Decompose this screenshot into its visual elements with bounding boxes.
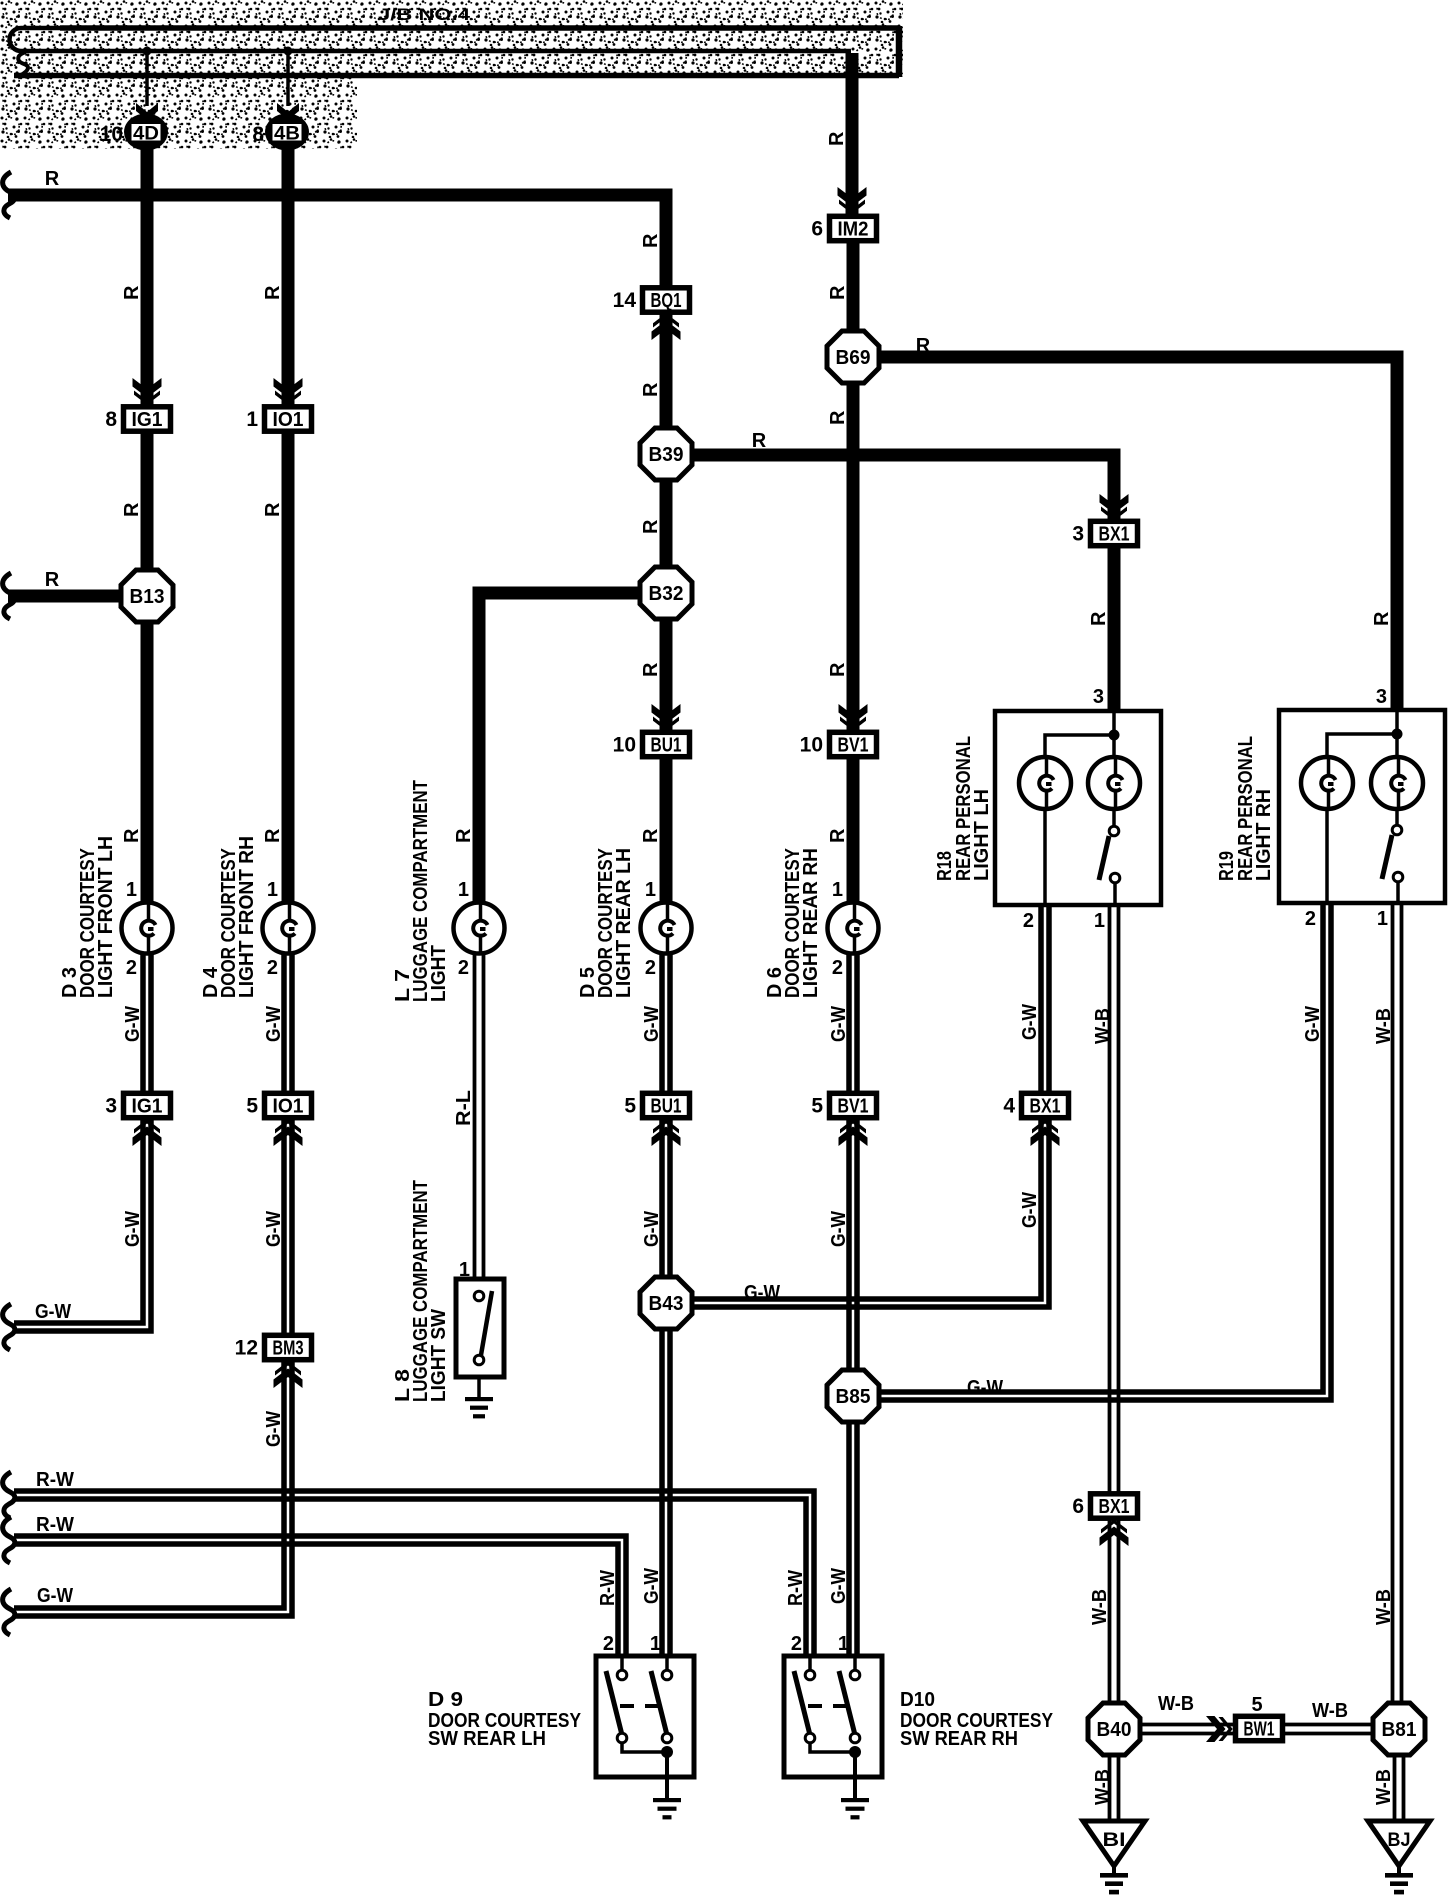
junction B32 (640, 567, 692, 619)
break symbol feed R left (3, 172, 15, 218)
svg-text:LIGHT SW: LIGHT SW (428, 1309, 450, 1402)
svg-text:LIGHT: LIGHT (428, 945, 450, 1002)
svg-text:LIGHT REAR LH: LIGHT REAR LH (613, 848, 635, 998)
svg-text:R: R (827, 828, 849, 843)
svg-text:LIGHT RH: LIGHT RH (1253, 789, 1275, 881)
svg-text:4D: 4D (133, 124, 159, 145)
svg-text:R-W: R-W (785, 1570, 807, 1606)
wire G-W BX1 pin4 down and left to junction B43 (692, 1119, 1049, 1307)
wire R from bus to connector IM2 (846, 53, 859, 214)
wire G-W BM3 down and left to break (14, 1361, 292, 1616)
svg-text:G-W: G-W (263, 1006, 285, 1042)
svg-text:G-W: G-W (967, 1377, 1003, 1399)
svg-text:1: 1 (838, 1633, 849, 1655)
junction B40 (1088, 1703, 1140, 1755)
arrow into connector 4B (277, 103, 299, 120)
svg-text:W-B: W-B (1089, 1589, 1111, 1625)
wire R horizontal feed to BQ1 corner (8, 195, 666, 287)
svg-text:W-B: W-B (1092, 1769, 1114, 1805)
svg-text:R-W: R-W (597, 1570, 619, 1606)
connector IG1 pin 3 (105, 1093, 170, 1117)
L8 ground lead (477, 1377, 481, 1397)
connector BM3 pin 12 (235, 1335, 312, 1359)
svg-text:SW REAR LH: SW REAR LH (428, 1728, 546, 1750)
svg-text:W-B: W-B (1373, 1589, 1395, 1625)
svg-text:BW1: BW1 (1244, 1719, 1275, 1741)
svg-text:R: R (827, 662, 849, 677)
wire W-B rear personal LH pin1 to connector BX1 pin 6 (1108, 905, 1112, 1493)
svg-text:G-W: G-W (122, 1006, 144, 1042)
arrow into IM2 (838, 187, 867, 214)
svg-text:3: 3 (1072, 523, 1084, 546)
svg-text:IG1: IG1 (132, 409, 163, 431)
svg-text:D10: D10 (900, 1689, 935, 1711)
svg-text:B81: B81 (1382, 1719, 1417, 1741)
connector BQ1 pin 14 (613, 288, 690, 312)
junction B43 (640, 1277, 692, 1329)
svg-text:10: 10 (800, 734, 823, 757)
svg-text:R: R (640, 662, 662, 677)
junction B39 (640, 428, 692, 480)
D9 common link to ground (622, 1743, 667, 1752)
wire R from B39 right to connector BX1 pin 3 (692, 455, 1114, 521)
wire R-W from break to door switch D9 pin 2 (14, 1536, 626, 1656)
arrow into IO1 pin 1 (274, 378, 303, 405)
wire drop to connector 4B (286, 51, 290, 106)
svg-text:B69: B69 (836, 347, 871, 369)
svg-text:R: R (262, 285, 284, 300)
svg-text:R: R (121, 828, 143, 843)
lamp D5 (641, 903, 692, 954)
D10 left contact set (808, 1656, 812, 1670)
svg-text:G-W: G-W (744, 1282, 780, 1304)
svg-text:R: R (45, 168, 60, 190)
wire R from BX1 pin 3 to rear personal light LH (1108, 546, 1121, 711)
wire R19 internal to left bulb (1327, 734, 1397, 756)
svg-text:8: 8 (105, 408, 117, 431)
wire W-B junction B40 to ground BI (1108, 1755, 1112, 1822)
wire drop to connector 4D (145, 51, 149, 106)
D10 mechanical link dashes (808, 1704, 822, 1708)
svg-text:G-W: G-W (35, 1301, 71, 1323)
svg-text:R: R (640, 233, 662, 248)
svg-text:BX1: BX1 (1099, 1496, 1130, 1518)
wire G-W lamp D4 to connector IO1 pin 5 (281, 953, 287, 1092)
svg-text:W-B: W-B (1373, 1769, 1395, 1805)
svg-text:W-B: W-B (1158, 1693, 1194, 1715)
svg-text:1: 1 (126, 879, 137, 901)
svg-text:R: R (262, 502, 284, 517)
connector BX1 pin 6 (1072, 1494, 1137, 1518)
arrow into IG1 pin 8 (133, 378, 162, 405)
lamp D6 (828, 903, 879, 954)
svg-text:D 9: D 9 (428, 1689, 463, 1711)
lamp D4 (263, 903, 314, 954)
ground symbol below BI (1112, 1866, 1116, 1873)
ground symbol below BJ (1397, 1866, 1401, 1873)
svg-text:SW REAR RH: SW REAR RH (900, 1728, 1018, 1750)
svg-text:2: 2 (1023, 910, 1034, 932)
svg-text:6: 6 (811, 218, 823, 241)
svg-text:1: 1 (645, 879, 656, 901)
svg-text:IM2: IM2 (838, 219, 869, 241)
svg-text:R: R (826, 131, 848, 146)
door courtesy switch rear LH D9 box (596, 1656, 694, 1777)
arrow up into BU1 pin 5 (652, 1119, 681, 1146)
ground symbol L8 (465, 1397, 493, 1418)
connector BW1 pin 5 (1236, 1716, 1283, 1740)
svg-text:5: 5 (811, 1095, 823, 1118)
svg-text:G-W: G-W (1019, 1192, 1041, 1228)
R18 right bulb (1112, 735, 1116, 757)
svg-text:W-B: W-B (1373, 1008, 1395, 1044)
svg-text:R: R (453, 828, 475, 843)
connector 4B pin 8 (252, 114, 309, 151)
svg-text:G-W: G-W (828, 1568, 850, 1604)
svg-text:5: 5 (246, 1095, 258, 1118)
arrow up into BQ1 pin 14 (652, 313, 681, 340)
svg-text:W-B: W-B (1312, 1700, 1348, 1722)
ground symbol D10 (841, 1798, 869, 1819)
svg-text:5: 5 (624, 1095, 636, 1118)
R18 left bulb (1019, 757, 1071, 809)
svg-text:B32: B32 (649, 583, 684, 605)
svg-text:2: 2 (791, 1633, 802, 1655)
arrow up into BV1 pin 5 (839, 1119, 868, 1146)
node tap to 4D on bus (143, 47, 152, 56)
D10 common link to ground (810, 1743, 855, 1752)
wire W-B junction B81 to ground BJ (1393, 1755, 1397, 1822)
wire R from B32 left to luggage compartment light L7 (479, 593, 642, 904)
svg-text:2: 2 (603, 1633, 614, 1655)
wire G-W IG1 pin3 down and left to break (14, 1119, 151, 1331)
svg-text:G-W: G-W (641, 1211, 663, 1247)
node R19 internal junction (1392, 729, 1403, 740)
svg-text:R: R (827, 285, 849, 300)
junction B85 (827, 1370, 879, 1422)
rear personal light LH R18 box (995, 711, 1161, 905)
svg-text:1: 1 (1094, 910, 1105, 932)
svg-text:B13: B13 (130, 586, 165, 608)
svg-text:LIGHT REAR RH: LIGHT REAR RH (800, 848, 822, 998)
svg-text:BJ: BJ (1388, 1830, 1411, 1851)
R18 switch (1043, 809, 1047, 905)
arrow into connector 4D (136, 103, 158, 120)
svg-text:G-W: G-W (37, 1585, 73, 1607)
svg-text:R: R (1371, 611, 1393, 626)
wire R column BQ1 to B39 to B32 to lamp D5 (660, 313, 673, 904)
svg-text:6: 6 (1072, 1495, 1084, 1518)
svg-text:1: 1 (458, 879, 469, 901)
junction B81 (1373, 1703, 1425, 1755)
svg-text:BM3: BM3 (273, 1338, 304, 1360)
break symbol on bus lower-left (18, 52, 28, 75)
svg-text:BV1: BV1 (838, 735, 869, 757)
svg-text:R: R (1088, 611, 1110, 626)
arrow into BU1 pin 10 (652, 704, 681, 731)
svg-text:1: 1 (246, 408, 258, 431)
svg-text:4B: 4B (274, 124, 300, 145)
svg-text:LIGHT FRONT LH: LIGHT FRONT LH (95, 836, 117, 998)
svg-text:BX1: BX1 (1030, 1096, 1061, 1118)
connector BX1 pin 4 (1003, 1093, 1068, 1117)
svg-text:3: 3 (105, 1095, 117, 1118)
ground triangle BI (1083, 1821, 1145, 1866)
svg-text:G-W: G-W (641, 1568, 663, 1604)
svg-text:LIGHT FRONT RH: LIGHT FRONT RH (236, 836, 258, 998)
svg-text:R: R (121, 285, 143, 300)
svg-text:B43: B43 (649, 1293, 684, 1315)
svg-text:B39: B39 (649, 444, 684, 466)
arrow up into IO1 pin 5 (274, 1119, 303, 1146)
D9 right contact set (665, 1656, 669, 1670)
svg-text:BQ1: BQ1 (651, 290, 682, 312)
svg-text:R: R (827, 410, 849, 425)
wire G-W rear personal RH pin2 down and left to junction B85 (878, 902, 1331, 1400)
svg-text:10: 10 (100, 123, 123, 146)
svg-text:BI: BI (1103, 1830, 1126, 1851)
wire R column D4 front RH (282, 148, 295, 904)
svg-text:W-B: W-B (1092, 1008, 1114, 1044)
svg-text:J/B NO.4: J/B NO.4 (378, 5, 471, 24)
D10 right contact set (853, 1656, 857, 1670)
svg-text:G-W: G-W (263, 1411, 285, 1447)
ground symbol D9 (653, 1798, 681, 1819)
connector BV1 pin 5 (811, 1093, 876, 1117)
J/B NO.4 bus bottom line (14, 73, 899, 79)
wire R into R19 pin3 internal (1395, 710, 1399, 734)
svg-text:8: 8 (252, 123, 264, 146)
arrow up into BM3 pin 12 (274, 1361, 303, 1388)
svg-text:G-W: G-W (828, 1006, 850, 1042)
svg-text:R-L: R-L (453, 1090, 475, 1126)
wire W-B rear personal RH pin1 to junction B81 (1391, 902, 1395, 1704)
svg-text:1: 1 (459, 1259, 470, 1281)
wire R stub from break to junction B13 (3, 573, 15, 619)
wire R-W from break to door switch D10 pin 2 (14, 1491, 814, 1656)
J/B NO.4 right edge (896, 26, 903, 77)
svg-text:R: R (262, 828, 284, 843)
wire G-W lamp D6 to connector BV1 pin 5 (846, 953, 852, 1092)
svg-text:B85: B85 (836, 1386, 871, 1408)
luggage compartment light switch L8 (456, 1279, 504, 1377)
R19 switch (1325, 809, 1329, 902)
rear personal light RH R19 box (1279, 710, 1445, 903)
svg-text:R-W: R-W (36, 1469, 74, 1491)
D9 left contact set (620, 1656, 624, 1670)
connector BU1 pin 5 (624, 1093, 689, 1117)
arrow right into BW1 (1206, 1716, 1233, 1742)
door courtesy switch rear RH D10 box (784, 1656, 882, 1777)
svg-text:2: 2 (832, 957, 843, 979)
svg-text:2: 2 (126, 957, 137, 979)
wire G-W BV1 pin5 through B85 to door switch D10 pin 1 (846, 1119, 852, 1656)
wire R column D3 front LH (141, 148, 154, 904)
svg-text:12: 12 (235, 1337, 258, 1360)
connector IO1 pin 1 (246, 407, 311, 431)
connector 4D pin 10 (100, 114, 168, 151)
svg-text:IO1: IO1 (273, 409, 304, 431)
svg-text:LIGHT LH: LIGHT LH (971, 789, 993, 881)
svg-text:G-W: G-W (122, 1211, 144, 1247)
wire G-W lamp D3 to connector IG1 pin 3 (140, 953, 146, 1092)
connector BV1 pin 10 (800, 732, 877, 756)
svg-text:G-W: G-W (828, 1211, 850, 1247)
svg-text:1: 1 (1377, 908, 1388, 930)
svg-text:G-W: G-W (1019, 1004, 1041, 1040)
L8 switch contacts and blade (474, 1291, 484, 1301)
ground triangle BJ (1368, 1821, 1430, 1866)
svg-text:G-W: G-W (1302, 1006, 1324, 1042)
svg-text:IO1: IO1 (273, 1096, 304, 1118)
svg-text:1: 1 (650, 1633, 661, 1655)
J/B NO.4 internal bus top line with left loop (10, 28, 899, 51)
wire R IM2 to B69 to lamp D6 (847, 243, 860, 904)
svg-text:4: 4 (1003, 1095, 1015, 1118)
connector IM2 pin 6 (811, 216, 876, 240)
node tap to 4B on bus (284, 47, 293, 56)
svg-text:3: 3 (1376, 686, 1387, 708)
arrow up into BX1 pin 4 (1031, 1119, 1060, 1146)
svg-text:BV1: BV1 (838, 1096, 869, 1118)
svg-text:R: R (640, 382, 662, 397)
lamp L7 (454, 903, 505, 954)
svg-text:R: R (640, 828, 662, 843)
wire R-L lamp L7 to luggage light switch L8 (473, 950, 477, 1279)
svg-text:R: R (640, 519, 662, 534)
svg-text:BU1: BU1 (651, 735, 682, 757)
wire W-B junction B40 to connector BW1 to junction B81 (1140, 1723, 1375, 1727)
svg-text:1: 1 (267, 879, 278, 901)
svg-text:G-W: G-W (263, 1211, 285, 1247)
connector BX1 pin 3 (1072, 521, 1137, 545)
node R18 internal junction (1109, 730, 1120, 741)
wire G-W lamp D5 to connector BU1 pin 5 (659, 953, 665, 1092)
svg-text:1: 1 (832, 879, 843, 901)
svg-text:R: R (45, 569, 60, 591)
svg-text:2: 2 (267, 957, 278, 979)
svg-text:R: R (121, 502, 143, 517)
svg-text:3: 3 (1093, 686, 1104, 708)
svg-text:IG1: IG1 (132, 1096, 163, 1118)
wire R18 internal to left bulb (1045, 735, 1114, 757)
arrow up into IG1 pin 3 (133, 1119, 162, 1146)
junction block J/B NO.4 stipple shading (0, 0, 903, 77)
R19 right bulb (1395, 734, 1399, 757)
arrow up into BX1 pin 6 (1100, 1519, 1129, 1546)
wire G-W BU1 pin5 through B43 to door switch D9 pin 1 (659, 1119, 665, 1656)
R19 left bulb (1301, 757, 1353, 809)
svg-text:BU1: BU1 (651, 1096, 682, 1118)
svg-text:14: 14 (613, 289, 637, 312)
svg-text:B40: B40 (1097, 1719, 1132, 1741)
connector BU1 pin 10 (613, 732, 690, 756)
svg-text:R: R (752, 430, 767, 452)
wire G-W IO1 pin5 to connector BM3 pin 12 (281, 1119, 287, 1334)
arrow into BV1 pin 10 (839, 704, 868, 731)
arrow into BX1 pin 3 (1100, 494, 1129, 521)
wire R from B69 right to rear personal light RH (879, 357, 1397, 710)
svg-text:10: 10 (613, 734, 636, 757)
junction B69 (827, 331, 879, 383)
lamp D3 (122, 903, 173, 954)
junction B13 (121, 570, 173, 622)
svg-text:5: 5 (1251, 1694, 1262, 1716)
D9 mechanical link dashes (620, 1704, 634, 1708)
svg-text:BX1: BX1 (1099, 524, 1130, 546)
svg-text:G-W: G-W (641, 1006, 663, 1042)
connector IO1 pin 5 (246, 1093, 311, 1117)
wire R into R18 pin3 internal (1112, 711, 1116, 735)
svg-text:2: 2 (458, 957, 469, 979)
svg-text:R: R (916, 335, 931, 357)
svg-text:R-W: R-W (36, 1514, 74, 1536)
connector IG1 pin 8 (105, 407, 170, 431)
svg-text:2: 2 (645, 957, 656, 979)
svg-text:2: 2 (1305, 908, 1316, 930)
wire W-B BX1 pin6 to junction B40 (1108, 1520, 1112, 1704)
wire G-W rear personal LH pin2 to connector BX1 pin 4 (1038, 905, 1044, 1092)
